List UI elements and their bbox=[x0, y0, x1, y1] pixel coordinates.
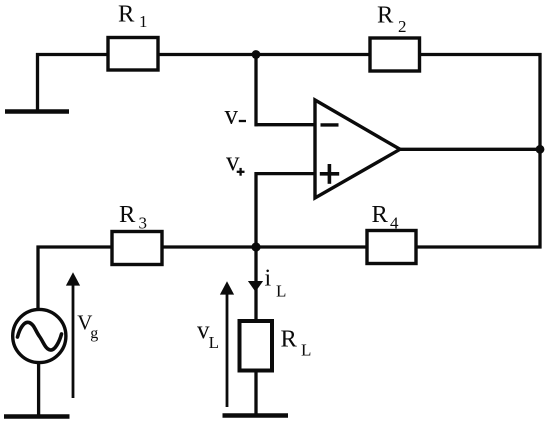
svg-text:g: g bbox=[90, 325, 98, 342]
ground symbol top-left bbox=[5, 109, 69, 113]
wire R4 to right rail bbox=[416, 245, 542, 248]
svg-text:4: 4 bbox=[390, 214, 399, 233]
ground symbol under source bbox=[4, 414, 70, 418]
svg-text:R: R bbox=[118, 0, 135, 27]
node A junction dot bbox=[252, 50, 261, 59]
arrow vL bbox=[226, 294, 229, 408]
svg-text:R: R bbox=[281, 326, 298, 353]
svg-text:2: 2 bbox=[398, 17, 407, 36]
wire R2 to right rail bbox=[420, 53, 542, 56]
wire source bottom bbox=[37, 362, 40, 416]
svg-text:1: 1 bbox=[139, 12, 148, 31]
svg-text:L: L bbox=[301, 340, 311, 359]
node B junction dot bbox=[251, 242, 260, 251]
source Vg (sine generator) bbox=[13, 309, 66, 362]
arrow iL (on wire into RL) bbox=[248, 281, 263, 292]
wire left source branch to R3 bbox=[37, 245, 113, 248]
svg-text:R: R bbox=[372, 201, 389, 228]
wire v+ horizontal into op-amp bbox=[255, 172, 316, 175]
wire v- horizontal into op-amp bbox=[255, 123, 316, 126]
wire R1 to R2 (through node A) bbox=[158, 53, 370, 56]
op-amp plus input mark bbox=[320, 164, 339, 184]
wire source top bbox=[36, 246, 39, 311]
wire top-left ground stem bbox=[36, 53, 39, 111]
resistor R1 bbox=[108, 38, 158, 71]
svg-text:i: i bbox=[265, 266, 272, 292]
resistor R4 bbox=[367, 231, 416, 264]
wire node A down to v- bbox=[254, 55, 257, 127]
resistor RL (load) bbox=[240, 321, 273, 371]
svg-text:v: v bbox=[225, 100, 239, 130]
wire ground1 to R1 bbox=[36, 53, 108, 56]
wire R3 to R4 (through node B) bbox=[162, 245, 367, 248]
wire v+ down to node B bbox=[254, 172, 257, 247]
op-amp U1 bbox=[315, 100, 400, 198]
wire right rail vertical bbox=[538, 53, 541, 249]
resistor R2 bbox=[370, 38, 420, 71]
wire op-amp output to right rail bbox=[400, 148, 540, 151]
op-amp minus input mark bbox=[321, 123, 339, 126]
arrow vg bbox=[72, 284, 75, 399]
ground symbol under RL bbox=[223, 413, 289, 417]
wire node B down to RL bbox=[254, 246, 257, 322]
resistor R3 bbox=[112, 232, 162, 265]
svg-text:L: L bbox=[209, 333, 219, 352]
wire RL to ground3 bbox=[254, 370, 257, 415]
svg-text:3: 3 bbox=[139, 214, 148, 233]
svg-text:R: R bbox=[377, 2, 394, 29]
svg-text:L: L bbox=[276, 282, 286, 301]
output node junction dot bbox=[536, 145, 545, 154]
svg-text:R: R bbox=[119, 201, 136, 228]
